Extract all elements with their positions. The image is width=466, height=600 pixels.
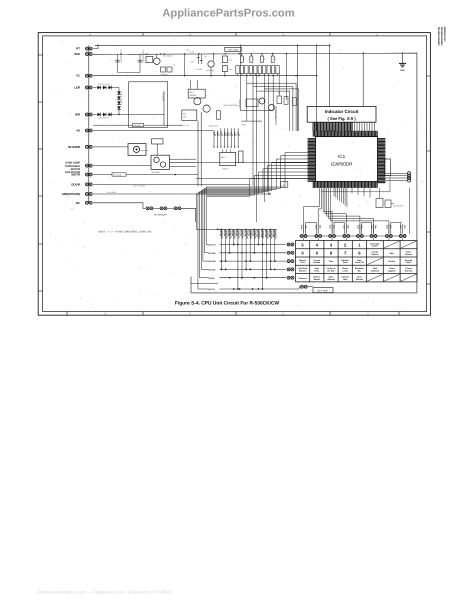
svg-text:Defrost: Defrost [356, 278, 363, 281]
svg-text:Center: Center [372, 245, 379, 248]
svg-text:RM-3(1.5k): RM-3(1.5k) [209, 124, 218, 127]
wire cap link rail [118, 72, 141, 74]
KEY UNIT label box [313, 288, 333, 293]
diode pair D21 D22 [197, 54, 199, 64]
frame zone ticks top [142, 33, 144, 36]
svg-text:RQ-1(10k): RQ-1(10k) [206, 69, 214, 72]
svg-text:LD1 LD2 LD3: LD1 LD2 LD3 [98, 83, 109, 86]
wire driver outputs [170, 158, 197, 160]
inner border frame [43, 36, 427, 312]
connector CN NC [85, 201, 88, 204]
diode matrix top rail [218, 228, 278, 230]
wire oven lamp row [93, 165, 151, 167]
svg-text:D3b: D3b [347, 225, 350, 229]
key matrix grid [296, 240, 418, 282]
wire DOOR row [93, 183, 250, 185]
svg-text:D21 D22: D21 D22 [196, 68, 203, 71]
svg-text:KS-7A: KS-7A [209, 288, 216, 291]
svg-text:R44: R44 [229, 68, 232, 71]
svg-text:Clear: Clear [314, 269, 319, 272]
wire buzzer row [93, 146, 128, 148]
svg-text:Bar: Bar [358, 269, 362, 272]
wire vertical 240 with label [239, 45, 241, 110]
transistor Q21 [154, 58, 161, 65]
wire bundle IC-left stair [207, 153, 308, 188]
svg-text:KU4: KU4 [356, 225, 359, 230]
svg-text:Help: Help [343, 278, 348, 281]
resistor box R47 [182, 110, 197, 120]
small box above driver [152, 139, 164, 144]
svg-text:10k: 10k [183, 116, 186, 119]
svg-text:8: 8 [330, 251, 333, 256]
svg-text:TINSEB123WRRZ: TINSEB123WRRZ [437, 27, 440, 47]
center net vertical 273 [272, 76, 274, 111]
svg-text:KS-13A: KS-13A [209, 260, 217, 263]
svg-text:Entrees: Entrees [405, 269, 413, 272]
svg-text:R45: R45 [191, 61, 194, 64]
svg-text:CY-1(100uF/10V): CY-1(100uF/10V) [142, 50, 145, 64]
wire through line oven-lamp to IC [170, 162, 308, 164]
svg-text:KU2: KU2 [329, 225, 332, 229]
svg-text:NC: NC [76, 201, 81, 205]
svg-text:Q3: Q3 [205, 55, 207, 58]
svg-text:TINSEB124WRRZ: TINSEB124WRRZ [440, 27, 443, 47]
transistor QC1 [259, 98, 265, 104]
svg-text:VC: VC [76, 74, 81, 78]
svg-text:7: 7 [344, 251, 347, 256]
svg-text:Popcorn: Popcorn [299, 277, 308, 280]
ground wire drop [402, 53, 404, 63]
svg-text:AppliancePartsPros.com — Appli: AppliancePartsPros.com — Appliance Parts… [38, 590, 172, 595]
svg-text:1k: 1k [173, 64, 175, 67]
svg-text:g: g [275, 59, 276, 61]
center cluster vertical resistors with labels [213, 131, 215, 148]
svg-text:FAN MOTOR: FAN MOTOR [65, 171, 80, 174]
connector CN WR [85, 113, 88, 116]
svg-text:Reheat: Reheat [405, 253, 412, 256]
content bottom edge wire [191, 292, 417, 294]
extra drop wires below IC [333, 188, 335, 196]
svg-text:KS-9A: KS-9A [209, 277, 216, 280]
IC1 left pin hatch [308, 138, 316, 140]
svg-text:WR: WR [75, 113, 81, 117]
svg-text:Figure S-4. CPU Unit Circuit: Figure S-4. CPU Unit Circuit For R-530CK… [175, 300, 280, 306]
center net vertical 253 [252, 74, 254, 186]
component cluster below-right of IC [376, 199, 383, 208]
svg-text:4: 4 [316, 242, 319, 247]
svg-text:A5DE8000010: A5DE8000010 [443, 27, 446, 43]
connector CN MGTR [85, 173, 88, 176]
schematic bus wire 2 / right content edge [93, 53, 417, 293]
svg-text:RM-15(10k): RM-15(10k) [274, 111, 277, 120]
svg-text:AppliancePartsPros.com: AppliancePartsPros.com [162, 8, 294, 20]
svg-text:BUZZER: BUZZER [68, 145, 81, 149]
extra junction dots row6 [239, 288, 241, 290]
wire RT to top bus [93, 45, 98, 48]
svg-text:KS-15A: KS-15A [209, 252, 217, 255]
wire bus2 drop to indicator [362, 54, 364, 107]
svg-text:Adjusts: Adjusts [327, 278, 335, 281]
svg-text:Indicator Circuit: Indicator Circuit [325, 109, 359, 114]
svg-text:RT: RT [76, 47, 80, 51]
schematic top bus wire 1 [95, 44, 331, 46]
svg-text:RM-1(330): RM-1(330) [162, 93, 165, 102]
wire LED chain to WR row [118, 110, 120, 115]
svg-text:CR-1(470uF/16V): CR-1(470uF/16V) [119, 50, 122, 64]
capacitor CY-1 with rotated label [139, 54, 141, 72]
svg-text:Melt: Melt [390, 252, 394, 255]
wire LER row [93, 87, 97, 89]
svg-text:AH SENSOR: AH SENSOR [154, 214, 167, 217]
svg-text:Wheat: Wheat [314, 278, 320, 281]
svg-text:LD8 LD9 L10: LD8 LD9 L10 [98, 117, 109, 120]
center net stair wires to IC top [247, 83, 296, 131]
wire vertical 276 with label [275, 106, 277, 125]
LED group LD8-LD10 [97, 114, 101, 116]
center net vertical 246 [246, 76, 248, 121]
enclosure box mid-left [129, 82, 168, 128]
svg-text:RM-1(6.8k): RM-1(6.8k) [113, 174, 122, 177]
label RM-4(WR) [133, 123, 144, 126]
svg-text:D1b: D1b [319, 225, 322, 229]
ground symbol [399, 62, 406, 64]
wire bus1 drop to IC top 2 [316, 45, 318, 131]
svg-text:SH6: SH6 [74, 52, 80, 56]
resistor array lower row [236, 66, 239, 74]
svg-text:g: g [264, 59, 265, 61]
matrix row connectors to key unit [287, 243, 290, 246]
svg-text:Poultry: Poultry [388, 260, 396, 263]
outer border frame [38, 33, 430, 316]
wire bundle IC-bottom stair to key columns [304, 188, 320, 234]
frame zone ticks right [427, 75, 431, 77]
indicator bus sparse wires [354, 122, 356, 131]
logic IC box GM-1 [188, 89, 205, 98]
svg-text:1k5: 1k5 [238, 134, 241, 137]
connector CN LER [85, 86, 88, 89]
wire GRD row [93, 193, 270, 195]
wire VC drop Q22 [210, 67, 212, 76]
svg-text:Timer: Timer [342, 261, 348, 264]
svg-text:1SS270A: 1SS270A [274, 231, 277, 240]
center net vertical 256 [256, 74, 258, 222]
matrix row wires with labels [208, 244, 286, 246]
key column connector rail [299, 235, 406, 237]
svg-text:9: 9 [316, 251, 319, 256]
svg-text:VA: VA [76, 129, 81, 133]
wire bus1 drop to indicator [329, 45, 331, 106]
driver transistor box Q20 [151, 155, 170, 169]
svg-text:GRD(WH/GR): GRD(WH/GR) [62, 192, 80, 196]
svg-text:861A: 861A [242, 123, 247, 126]
svg-text:D7b: D7b [403, 225, 406, 229]
connector CN BUZZER [85, 145, 88, 148]
svg-text:2D1 PTC/QSOL: 2D1 PTC/QSOL [133, 185, 146, 188]
svg-text:4069UB: 4069UB [189, 94, 197, 97]
scan noise speckle [46, 39, 425, 309]
wire vertical 184 [184, 54, 186, 76]
svg-text:RM-4(WR): RM-4(WR) [133, 124, 141, 127]
key column pi bridges [306, 222, 317, 234]
matrix enclosure left edge [190, 277, 192, 293]
wire NC row to AH sensor [93, 203, 145, 209]
LED group LD1-LD3 [97, 87, 101, 89]
svg-text:QM-1(KRC243M): QM-1(KRC243M) [224, 104, 239, 107]
svg-text:R47: R47 [183, 112, 186, 115]
seventh bundle line [196, 194, 217, 229]
wire cluster drop pair [197, 120, 199, 186]
OSC UNIT box [225, 47, 242, 51]
wire AH sensor tail [181, 208, 196, 222]
LED chain LD4-LD7 vertical [118, 91, 120, 95]
wires cluster joins [196, 97, 198, 99]
transistor QC2 [269, 105, 275, 111]
indicator bus hatch dense [312, 122, 314, 131]
svg-text:C2 0.1: C2 0.1 [190, 51, 195, 54]
svg-text:KS-11A: KS-11A [209, 269, 217, 272]
svg-text:OH-1(6800): OH-1(6800) [107, 191, 117, 194]
svg-text:SB-T40904: SB-T40904 [152, 171, 161, 174]
wire MGTR row [93, 174, 112, 176]
connector CN SH6 [85, 53, 88, 56]
wire riser RM-1 [163, 91, 165, 126]
svg-text:KS-17A: KS-17A [209, 244, 217, 247]
svg-text:KEY UNIT: KEY UNIT [318, 290, 330, 293]
connector CN VA [85, 129, 88, 132]
resistor boxes below Q21 [161, 67, 166, 72]
connector CN VC [85, 74, 88, 77]
svg-text:KU6: KU6 [385, 225, 388, 229]
svg-text:Beef: Beef [406, 261, 411, 264]
junction dots on top bus [97, 45, 98, 46]
svg-text:NOTE : —⌷— : IF NOT SPECIFIE: NOTE : —⌷— : IF NOT SPECIFIED, 1/10W J 5… [99, 230, 153, 233]
label RM-1(6.8k) [112, 173, 126, 176]
AH sensor connectors [146, 207, 149, 210]
svg-text:( See Fig. S-5 ): ( See Fig. S-5 ) [327, 116, 356, 121]
svg-text:Dinners: Dinners [299, 269, 307, 272]
svg-text:Touch On: Touch On [355, 261, 365, 264]
wire bus1 drop to IC [297, 45, 299, 131]
svg-text:C31: C31 [229, 59, 232, 62]
transistor Q22 [208, 61, 214, 67]
component box PM-7A [220, 153, 236, 166]
center net vertical 264 [263, 74, 265, 202]
svg-text:IC1: IC1 [338, 154, 346, 159]
svg-text:KEY BOARD: KEY BOARD [393, 205, 404, 208]
resistor network box right [385, 159, 391, 176]
svg-text:Snacks: Snacks [313, 261, 321, 264]
resistor array lower leads [237, 74, 239, 76]
svg-text:1: 1 [358, 242, 361, 247]
svg-text:g: g [244, 59, 245, 61]
resistor RM-9 vertical [216, 111, 220, 119]
stacked boxes C31 R44 [222, 56, 227, 63]
connector CN GRD(WH/GR) [85, 193, 88, 196]
svg-text:D5b: D5b [374, 225, 377, 229]
connector CN DOOR [85, 183, 88, 186]
frame zone ticks left [38, 54, 42, 56]
svg-text:RQ-T40904: RQ-T40904 [163, 55, 172, 58]
svg-text:Level: Level [343, 269, 349, 272]
svg-text:ZD1: ZD1 [186, 49, 189, 52]
label LX box [281, 182, 288, 188]
connector CN OVEN LAMP [85, 164, 88, 167]
capacitor CR-1 with rotated label [117, 54, 119, 72]
svg-text:IZA850DR: IZA850DR [331, 162, 353, 167]
wire WR row right [112, 114, 164, 116]
svg-text:suggest.: suggest. [388, 269, 397, 272]
wire WR row [93, 114, 97, 116]
svg-text:DOOR: DOOR [71, 182, 81, 186]
buzzer box BZ [128, 144, 146, 156]
indicator circuit box [307, 107, 376, 123]
svg-text:3: 3 [330, 242, 333, 247]
svg-text:PM-7A!: PM-7A! [223, 167, 230, 170]
wire cluster link [379, 188, 381, 199]
connector column bus [88, 45, 90, 203]
component box Q21 cluster [146, 56, 153, 62]
svg-text:OSC UNIT: OSC UNIT [228, 49, 239, 52]
wire through line driver to IC [196, 178, 308, 180]
svg-text:Q2: Q2 [147, 53, 149, 56]
transistor QM-2 [203, 105, 210, 112]
frame zone ticks bottom [66, 312, 68, 316]
component box PM-8 [239, 151, 243, 163]
component box RV1 [277, 96, 282, 104]
wire VA row [93, 130, 214, 132]
left vertical bundle to matrix rows [206, 187, 208, 245]
svg-text:PM-7: PM-7 [221, 156, 226, 159]
IC1 body [316, 137, 378, 182]
resistor array upper row [241, 53, 243, 56]
svg-text:GM-1: GM-1 [189, 91, 194, 94]
wire right loop down [321, 176, 390, 192]
matrix column wires with labels [221, 229, 223, 269]
svg-text:KU0: KU0 [300, 225, 303, 229]
wire VC drop R44 [224, 72, 226, 76]
svg-text:the Day: the Day [327, 269, 335, 272]
IC1 bottom pin hatch [312, 182, 314, 188]
svg-text:g: g [253, 59, 254, 61]
svg-text:SP-T40904: SP-T40904 [141, 149, 149, 152]
transistor QM-1 [194, 98, 201, 105]
svg-text:LD4 LD5 LD6 LD7: LD4 LD5 LD6 LD7 [120, 92, 123, 106]
IC1 pin band shading [308, 122, 386, 188]
svg-text:Time: Time [329, 260, 335, 263]
svg-text:5: 5 [301, 242, 304, 247]
svg-text:0: 0 [301, 251, 304, 256]
short stub drops below IC right [351, 188, 353, 194]
key unit row 6 connector [300, 285, 303, 288]
svg-text:2: 2 [344, 242, 347, 247]
svg-text:LER: LER [74, 86, 81, 90]
IC1 top pin hatch [312, 131, 314, 137]
IC1 right pin hatch [378, 138, 386, 140]
component box DC1 [246, 99, 258, 107]
svg-text:6: 6 [358, 251, 361, 256]
wires IC right to test pads [385, 172, 407, 174]
key column connectors and labels [303, 224, 305, 234]
capacitor pair CC1 [284, 97, 288, 105]
buzzer circle [133, 146, 139, 152]
wire riser x286 [286, 54, 288, 100]
svg-text:Defrost: Defrost [371, 253, 378, 256]
center net vertical 268 [268, 74, 270, 195]
wire LED bend [112, 88, 119, 92]
wire VC row [93, 75, 317, 77]
svg-text:RM-1 1.5k: RM-1 1.5k [181, 124, 189, 127]
connector CN RT [85, 47, 88, 50]
